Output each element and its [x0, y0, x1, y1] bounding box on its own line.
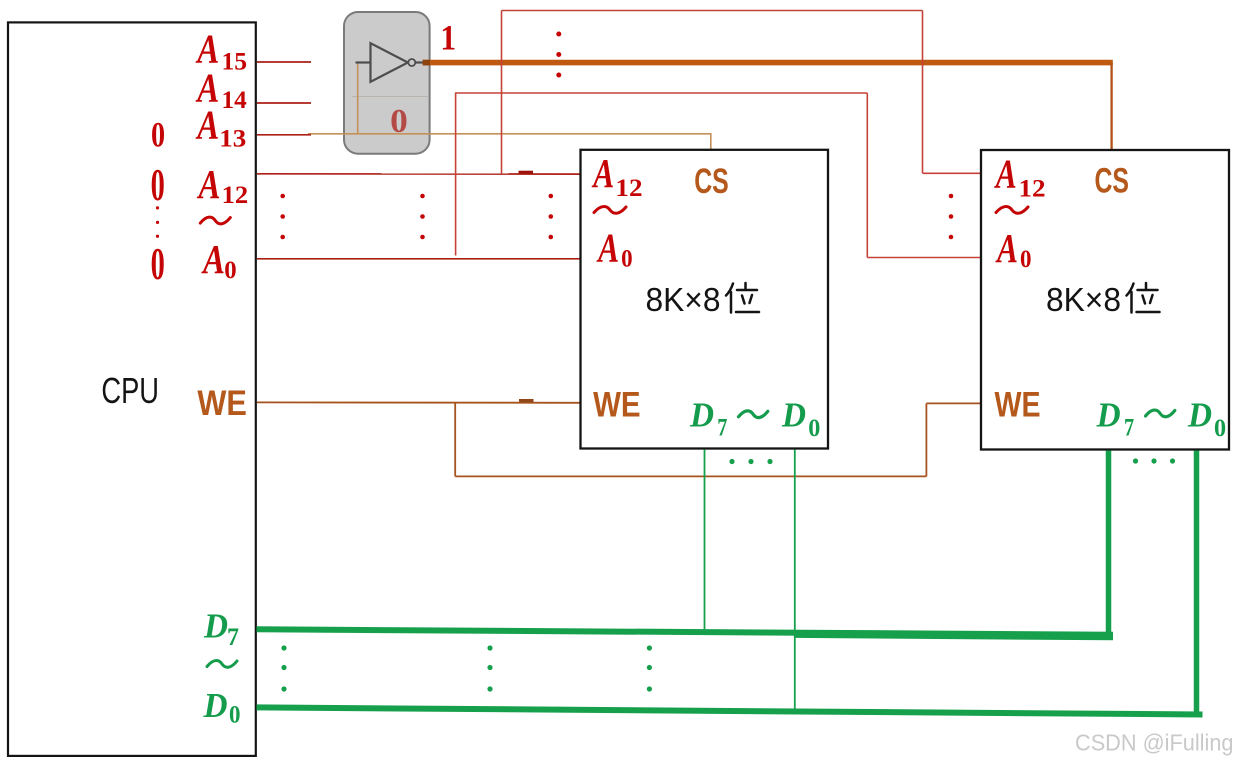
svg-text:0: 0	[229, 702, 241, 729]
svg-text:D: D	[689, 396, 714, 435]
svg-text:12: 12	[615, 175, 642, 202]
svg-text:A: A	[196, 161, 220, 207]
svg-text:15: 15	[222, 48, 248, 75]
svg-text:7: 7	[227, 624, 239, 651]
svg-text:0: 0	[621, 246, 633, 273]
svg-text:CS: CS	[1095, 162, 1130, 201]
svg-text:0: 0	[151, 114, 165, 154]
svg-text:0: 0	[151, 238, 165, 289]
svg-text:D: D	[203, 686, 228, 725]
svg-text:0: 0	[1214, 415, 1226, 442]
svg-text:7: 7	[1124, 415, 1134, 442]
svg-text:0: 0	[1020, 246, 1032, 273]
svg-text:CPU: CPU	[101, 370, 159, 411]
svg-text:A: A	[995, 225, 1018, 271]
svg-text:A: A	[195, 102, 219, 148]
svg-text:8K×8: 8K×8	[1046, 281, 1121, 318]
svg-text:0: 0	[808, 415, 820, 442]
svg-text:WE: WE	[593, 385, 641, 424]
svg-text:0: 0	[224, 257, 236, 284]
svg-text:WE: WE	[197, 384, 247, 423]
svg-text:12: 12	[1019, 175, 1046, 202]
svg-text:CS: CS	[694, 162, 729, 201]
svg-text:A: A	[201, 236, 225, 282]
svg-text:D: D	[781, 396, 806, 435]
svg-text:14: 14	[222, 87, 248, 114]
svg-text:1: 1	[440, 17, 456, 57]
svg-text:WE: WE	[995, 385, 1041, 424]
svg-text:D: D	[203, 607, 228, 646]
svg-text:0: 0	[390, 103, 408, 140]
svg-text:D: D	[1187, 396, 1212, 435]
svg-text:A: A	[591, 150, 614, 196]
svg-text:13: 13	[219, 125, 246, 152]
svg-text:CSDN @iFulling: CSDN @iFulling	[1075, 730, 1234, 756]
svg-text:0: 0	[151, 159, 165, 210]
svg-text:A: A	[993, 151, 1016, 197]
svg-text:7: 7	[717, 415, 727, 442]
svg-text:A: A	[596, 225, 619, 271]
svg-text:8K×8: 8K×8	[646, 281, 721, 318]
svg-text:D: D	[1096, 396, 1121, 435]
svg-text:12: 12	[222, 182, 249, 209]
